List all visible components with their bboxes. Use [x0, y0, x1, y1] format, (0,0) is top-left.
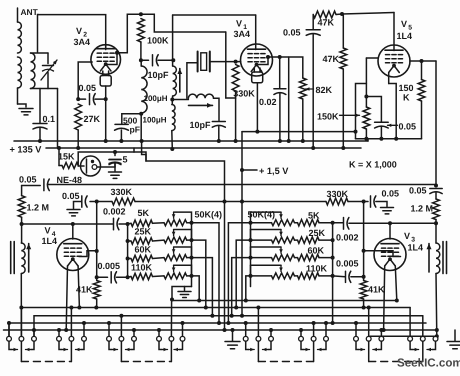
svg-text:60K: 60K: [308, 246, 325, 256]
capacitor 10pF (osc tank): [212, 121, 225, 123]
switch section S2 pole: [70, 308, 72, 337]
svg-text:0.05: 0.05: [283, 28, 301, 38]
svg-text:K = X 1,000: K = X 1,000: [349, 160, 397, 170]
screen/AVC vertical (left): [96, 202, 98, 281]
svg-text:47K: 47K: [323, 54, 340, 64]
wire +1.5V vertical: [241, 132, 243, 170]
transformer T1 (left output): [21, 224, 23, 243]
wire V5 plate down right rail: [435, 61, 437, 185]
tap wire row2: [192, 240, 206, 307]
svg-text:0.005: 0.005: [336, 259, 359, 269]
capacitor 0.05 to ground (left): [90, 201, 97, 203]
V2 cathode lead down to rail: [105, 86, 107, 141]
svg-text:110K: 110K: [131, 263, 153, 273]
switch section S4 pole: [169, 336, 174, 341]
capacitor 0.05 (V5): [375, 121, 389, 123]
tap wire row1: [192, 223, 220, 323]
svg-text:V: V: [236, 19, 242, 29]
ground bracket (left bank): [172, 287, 192, 300]
svg-text:330K: 330K: [327, 189, 349, 199]
switch section S3 contact B: [133, 330, 135, 336]
svg-text:60K: 60K: [135, 245, 152, 255]
resistor 25K (right): [298, 237, 320, 243]
svg-text:330K: 330K: [233, 89, 255, 99]
switch section S5 contact B: [270, 330, 272, 336]
svg-text:0.05: 0.05: [19, 175, 37, 185]
wire tank bottom down to +135V rail: [57, 89, 59, 149]
right bank tap wires row1-4: [228, 223, 250, 323]
wire osc tank top: [172, 15, 174, 60]
wire +1.5V line into bus: [224, 202, 226, 331]
wire 47K to V5 top: [342, 13, 394, 15]
svg-text:1.2 M: 1.2 M: [27, 203, 50, 213]
resistor 41K (left): [93, 281, 100, 300]
capacitor 500 pF: [122, 114, 141, 124]
svg-text:150: 150: [399, 83, 414, 93]
svg-text:0.005: 0.005: [98, 261, 121, 271]
ground (middle bottom): [232, 330, 234, 341]
capacitor 0.005 (left): [97, 276, 108, 278]
svg-text:50K(4): 50K(4): [248, 210, 276, 220]
slug arrow (100uH upper): [179, 69, 181, 93]
V5 filament legs: [388, 73, 390, 84]
svg-text:100μH: 100μH: [144, 94, 168, 103]
switch section S1 pole: [19, 336, 24, 341]
capacitor 0.05 (right coupling): [430, 188, 442, 190]
switch section S6 pole: [313, 323, 315, 336]
tap wire row4: [192, 276, 200, 301]
potentiometer 50K-1 (right): [272, 220, 295, 226]
svg-text:0.05: 0.05: [79, 83, 97, 93]
svg-text:0.002: 0.002: [103, 207, 126, 217]
right bank right bus: [332, 223, 334, 276]
svg-text:10pF: 10pF: [148, 70, 170, 80]
wire top rail to V1 plate: [173, 14, 256, 16]
resistor 110K (left): [131, 273, 153, 279]
svg-text:0.05: 0.05: [62, 191, 80, 201]
tap wire row3: [192, 258, 213, 316]
resistor 60K (right): [298, 254, 320, 260]
detector output rail: [48, 184, 437, 186]
switch section S1 contact B: [33, 330, 35, 336]
capacitor 0.005 (right): [333, 275, 345, 278]
svg-text:82K: 82K: [316, 85, 333, 95]
capacitor 0.02: [279, 57, 281, 89]
capacitor 0.05 (V2 cathode bypass): [78, 98, 85, 100]
wire to 82K pot: [280, 57, 303, 78]
resistor 41K (right): [360, 281, 367, 300]
svg-text:0.1: 0.1: [43, 114, 56, 124]
svg-text:27K: 27K: [84, 114, 101, 124]
switch section S6 contact B: [325, 323, 327, 336]
V3 grid lead: [389, 223, 391, 239]
resistor 330K (right): [326, 198, 348, 205]
tube V5 1L4: [378, 45, 410, 77]
wire 0.05 coupling tap: [288, 57, 290, 141]
inductor 100uH (left choke): [140, 60, 142, 66]
T1 core: [10, 242, 12, 274]
svg-text:ANT.: ANT.: [21, 7, 40, 17]
svg-text:NE-48: NE-48: [57, 175, 83, 185]
capacitor 0.1 with stem: [39, 89, 41, 124]
switch section S5 pole: [257, 308, 259, 337]
bus wire B3: [34, 316, 423, 337]
potentiometer 50K-4 (right): [272, 273, 295, 279]
wire ANT to V2 grid cap: [38, 15, 106, 52]
resistor 330K (V1 grid leak): [232, 65, 239, 92]
resistor 27K: [75, 104, 82, 130]
switch section S4 contact B: [182, 323, 184, 336]
horizontal coupling coil: [188, 94, 213, 98]
82K wiper arrow: [306, 88, 314, 90]
V5 local bottom wire: [356, 138, 422, 140]
resistor 1.2M (left): [21, 186, 23, 196]
resistor 150K ... label 150 K: [421, 61, 423, 80]
switch section S8 pole: [422, 316, 424, 337]
svg-text:+ 135 V: + 135 V: [10, 145, 43, 155]
resistor 47K vertical: [342, 14, 344, 48]
resistor 5K (left): [131, 220, 153, 226]
resistor 47K horizontal: [313, 11, 336, 18]
right bank tap wire row1: [247, 222, 251, 224]
svg-text:+ 1,5 V: + 1,5 V: [259, 166, 289, 176]
rail B- (upper): [14, 140, 368, 142]
svg-text:110K: 110K: [306, 264, 328, 274]
tube V1 3A4: [241, 44, 273, 76]
svg-text:10pF: 10pF: [190, 120, 212, 130]
potentiometer 50K-2 (left): [164, 237, 187, 243]
V4 grid lead: [72, 224, 74, 239]
resistor 330K (left): [95, 200, 99, 204]
switch section S2 contact A: [58, 330, 60, 336]
svg-text:330K: 330K: [111, 187, 133, 197]
capacitor 5 (regulator bypass): [114, 163, 116, 167]
svg-text:5K: 5K: [308, 211, 320, 221]
resistor 5K (right): [298, 220, 320, 226]
screen/AVC vertical (right): [363, 202, 365, 281]
gang link dashed lines: [21, 361, 71, 363]
V2 grid exit wire to top rail: [107, 53, 117, 65]
potentiometer 50K-3 (right): [272, 255, 295, 261]
resistor 60K (left): [131, 255, 153, 261]
svg-text:3A4: 3A4: [234, 29, 251, 39]
switch section S8 contact A: [409, 308, 411, 337]
V5 grid wire left: [366, 57, 378, 59]
svg-text:5: 5: [123, 155, 128, 165]
bus wire B4: [9, 323, 426, 336]
svg-text:15K: 15K: [58, 152, 75, 162]
V5 plate lead from top: [393, 13, 395, 51]
left bank right bus: [191, 223, 193, 287]
wire coil junction to horizontal coil: [172, 99, 188, 101]
V3 screen exit wire: [364, 251, 401, 257]
ground (antenna coil): [18, 104, 27, 107]
bus wire B5: [4, 329, 437, 331]
svg-text:pF: pF: [130, 125, 141, 135]
tube V4 1L4: [57, 239, 89, 271]
capacitor 0.05 (left coupling): [22, 185, 41, 187]
antenna coil L1: [17, 8, 19, 22]
resistor 110K (right): [298, 273, 320, 279]
svg-text:100K: 100K: [147, 36, 169, 46]
wire crystal branch: [187, 63, 197, 99]
svg-text:V: V: [45, 226, 51, 236]
tank coil L2: [31, 52, 49, 54]
left bank tap wires to switch buses: [192, 222, 197, 224]
left bank bus: [127, 224, 129, 277]
inductor 100uH lower: [172, 105, 175, 131]
V1 grid-2 exit wire: [258, 57, 269, 65]
bias feed wire to detector: [134, 152, 225, 202]
V1 cathode lead to +1.5V line: [256, 83, 258, 132]
potentiometer 50K-3 (left): [164, 255, 187, 261]
svg-text:50K(4): 50K(4): [195, 210, 223, 220]
capacitor 0.002 (left): [113, 218, 115, 230]
svg-text:25K: 25K: [135, 227, 152, 237]
resistor 25K (left): [131, 238, 153, 244]
wire 100uH-A top joins rail: [140, 41, 142, 43]
potentiometer 50K-4 (left): [164, 273, 187, 279]
T1 arrow: [28, 244, 30, 273]
V4 grid wire: [22, 223, 113, 225]
svg-text:K: K: [403, 93, 410, 103]
bus wire B2: [21, 307, 410, 309]
resistor 1.2M (right): [433, 199, 440, 220]
switch section S5 contact A: [245, 323, 247, 336]
capacitor 0.05 to ground (right): [364, 201, 368, 203]
wire rail tap to bias line: [142, 141, 146, 161]
V3 filament legs down: [384, 266, 385, 330]
transformer T2 (right output): [435, 223, 437, 243]
T2 arrow: [428, 244, 430, 273]
svg-text:100μH: 100μH: [143, 116, 167, 125]
svg-text:V: V: [401, 19, 407, 29]
V3 grid wire to 1.2M: [390, 222, 436, 224]
tube V3 1L4: [374, 239, 406, 271]
switch section S4 contact A: [158, 330, 160, 336]
potentiometer 50K-1 (left): [164, 220, 187, 226]
V2 base plug: [100, 76, 111, 87]
capacitor 10pF (osc coupling): [141, 59, 149, 61]
V1 plate lead: [255, 15, 257, 50]
svg-text:1L4: 1L4: [42, 236, 58, 246]
svg-text:0.05: 0.05: [382, 189, 400, 199]
arrow through horizontal coil: [189, 104, 213, 106]
svg-text:0.02: 0.02: [259, 97, 277, 107]
neon lamp NE-48: [81, 156, 101, 176]
svg-text:150K: 150K: [317, 112, 339, 122]
potentiometer 50K-2 (right): [272, 237, 295, 243]
V2 plate lead into tube: [105, 45, 107, 50]
potentiometer 150K: [363, 107, 370, 129]
switch section S7 contact B: [380, 330, 382, 336]
svg-text:SeekIC.com: SeekIC.com: [397, 357, 460, 370]
wire 100K branch down: [141, 140, 143, 142]
V4 filament legs down: [66, 266, 67, 330]
svg-text:0.05: 0.05: [399, 122, 417, 132]
inductor 100uH upper (slug tuned): [173, 66, 177, 96]
ground (5 cap): [114, 163, 116, 171]
svg-text:0.05: 0.05: [409, 186, 427, 196]
rail +135V: [46, 147, 361, 149]
bus wire B6 (right): [370, 335, 437, 337]
svg-text:41K: 41K: [76, 285, 93, 295]
svg-text:25K: 25K: [309, 228, 326, 238]
switch section S6 contact A: [300, 330, 302, 336]
wire osc feedback vertical: [225, 32, 227, 98]
right bank bus (left side): [250, 223, 252, 287]
svg-text:41K: 41K: [368, 285, 385, 295]
T2 core: [442, 242, 444, 274]
switch section S1 contact A: [8, 323, 10, 336]
wire to 0.05 (V5 AVC cap): [366, 97, 381, 122]
0.05 arrow pointer: [388, 124, 398, 126]
variable capacitor (tank tuning): [43, 65, 54, 67]
tube V2 3A4: [91, 45, 121, 75]
switch section S7 contact A: [355, 323, 357, 336]
svg-text:47K: 47K: [318, 18, 335, 28]
capacitor 0.002 (right): [333, 222, 343, 224]
V2 bias wire left (grid return): [78, 62, 92, 99]
resistor 15K with NE-48: [58, 148, 60, 166]
ground (right edge bottom): [454, 330, 456, 341]
wire V5 grid return to +1.5V line: [242, 131, 356, 133]
switch section S2 contact B: [83, 323, 85, 336]
V5 grid network vertical: [365, 58, 367, 107]
svg-text:5K: 5K: [138, 208, 150, 218]
svg-text:1.2 M: 1.2 M: [411, 204, 434, 214]
V4 screen exit wire: [79, 251, 97, 257]
resistor 82K potentiometer: [299, 78, 306, 99]
switch section S7 pole: [368, 308, 370, 337]
NE-48 top wire box: [78, 152, 134, 166]
switch section S3 contact A: [108, 323, 110, 336]
bus wire B1: [172, 300, 397, 302]
wire top rail jog down to oscillator tank: [141, 14, 226, 32]
150K wiper arrow: [340, 114, 360, 116]
svg-text:0.002: 0.002: [336, 233, 359, 243]
svg-text:3A4: 3A4: [74, 37, 91, 47]
resistor 100K: [138, 19, 145, 42]
V5 plate wire right: [410, 60, 436, 62]
switch section S8 contact B: [433, 336, 438, 341]
wire bias line into bus: [241, 202, 243, 316]
svg-text:V: V: [404, 231, 410, 241]
svg-text:1L4: 1L4: [397, 31, 413, 41]
switch section S3 pole: [120, 316, 122, 337]
V1 base plug: [252, 72, 263, 83]
crystal Y1: [197, 52, 199, 72]
svg-text:1L4: 1L4: [408, 243, 424, 253]
wire crystal to V1 grid: [210, 61, 236, 63]
svg-text:V: V: [76, 26, 82, 36]
wire to 10pF trimmer: [214, 98, 220, 120]
